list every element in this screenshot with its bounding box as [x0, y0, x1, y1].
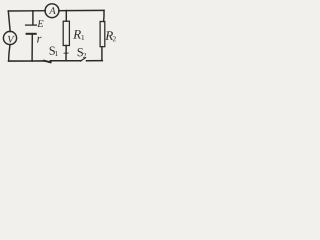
wire R1 junction to top-right corner [66, 9, 104, 11]
label R1 [73, 30, 84, 40]
label E [37, 20, 43, 27]
resistor R2 box [100, 22, 105, 47]
wire ammeter to R1 junction [59, 10, 67, 12]
wire bottom-left corner to battery stem [9, 60, 33, 62]
wire R1 junction to switch S2 [66, 60, 81, 62]
switch S2 lever [81, 58, 86, 61]
switch S1 lever [44, 61, 51, 63]
label V [8, 36, 15, 43]
label R2 [105, 31, 116, 41]
R1 bottom lead wire [65, 46, 67, 61]
battery E r [26, 25, 37, 34]
wire battery stem to switch S1 [32, 60, 44, 62]
ammeter A [45, 4, 59, 18]
wire S1 to R1 bottom junction [50, 60, 66, 62]
wire S2 to R2 stem [87, 60, 103, 62]
wire voltmeter to bottom-left corner [9, 45, 10, 61]
R1 top lead wire [65, 11, 67, 22]
wire top-left to battery junction [8, 10, 33, 12]
R2 bottom lead wire [101, 47, 103, 61]
wire left side, corner down to voltmeter [8, 11, 10, 32]
battery bottom lead wire [31, 35, 33, 61]
label r [37, 37, 41, 43]
battery top lead wire [32, 11, 34, 25]
voltmeter V [3, 31, 16, 44]
wire top-right corner down to R2 [103, 10, 105, 21]
junction tick on R1 bottom lead [64, 52, 68, 54]
resistor R1 box [63, 21, 69, 45]
label S1 [50, 47, 58, 56]
wire battery junction to ammeter [33, 10, 45, 12]
label A [49, 7, 56, 14]
label S2 [78, 48, 86, 58]
